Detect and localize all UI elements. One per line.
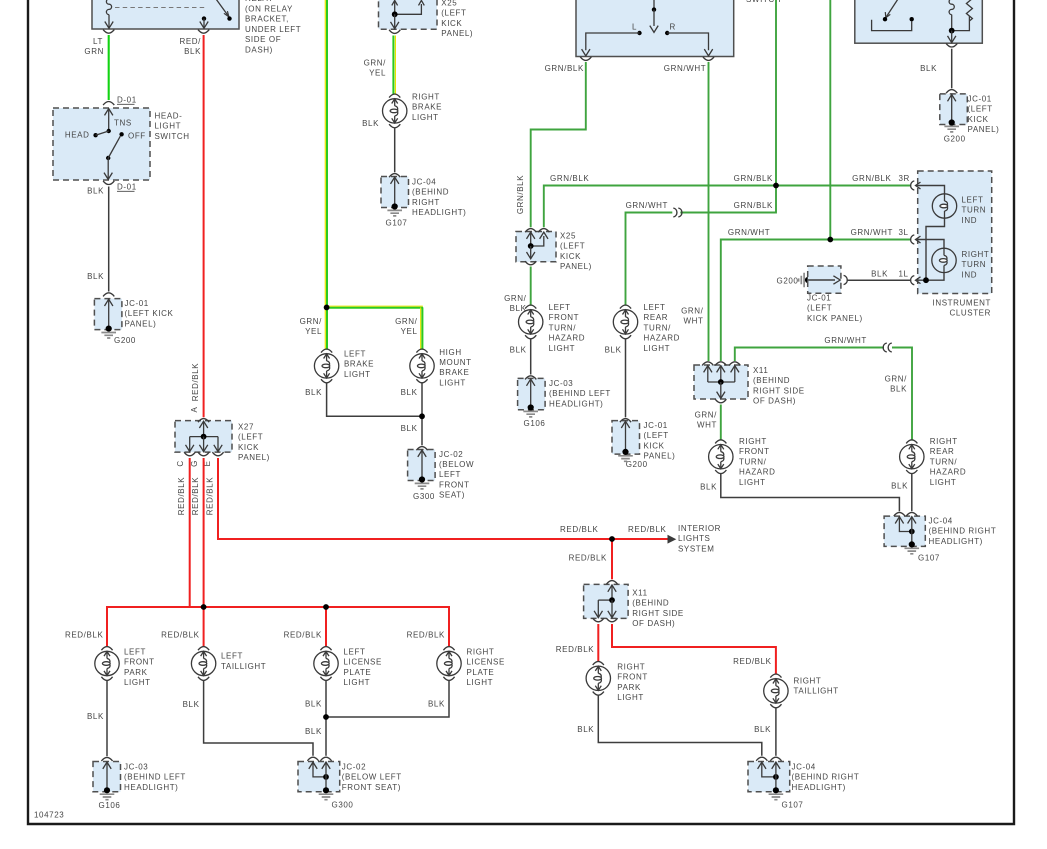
lamp RIGHT TAILLIGHT: [764, 674, 788, 708]
svg-text:UNDER LEFT: UNDER LEFT: [245, 25, 301, 34]
svg-text:LEFT: LEFT: [962, 196, 984, 205]
svg-text:TNS: TNS: [114, 119, 132, 128]
svg-text:PLATE: PLATE: [467, 668, 495, 677]
connector X25 left kick panel top: [379, 0, 438, 33]
svg-text:OFF: OFF: [128, 132, 146, 141]
svg-text:PANEL): PANEL): [441, 29, 473, 38]
wire GRN/YEL main trunk from top: [325, 0, 327, 307]
svg-text:BLK: BLK: [183, 700, 200, 709]
svg-text:GRN: GRN: [84, 47, 104, 56]
svg-text:FRONT: FRONT: [549, 313, 580, 322]
svg-text:SYSTEM: SYSTEM: [678, 544, 715, 553]
svg-text:HEADLIGHT): HEADLIGHT): [124, 783, 178, 792]
svg-text:OF DASH): OF DASH): [632, 619, 675, 628]
cluster connector 3L: [911, 235, 921, 244]
svg-text:KICK: KICK: [441, 19, 462, 28]
svg-text:BRAKE: BRAKE: [344, 360, 374, 369]
wire GRN/YEL drop to left brake light: [300, 307, 327, 349]
svg-text:BRACKET,: BRACKET,: [245, 15, 289, 24]
label JC-01 (LEFT KICK PANEL) horizontal: [807, 294, 863, 323]
svg-text:KICK PANEL): KICK PANEL): [807, 314, 863, 323]
flasher output junction and exit: [946, 28, 957, 47]
svg-text:KICK: KICK: [238, 443, 259, 452]
label LEFT FRONT TURN/HAZARD LIGHT: [549, 303, 586, 353]
svg-text:OF DASH): OF DASH): [753, 397, 796, 406]
junction dot brake light branch: [324, 305, 330, 311]
cluster internal wiring: [916, 186, 945, 284]
wire GRN/WHT X11 to right front turn light: [695, 405, 721, 441]
svg-text:TAILLIGHT: TAILLIGHT: [221, 662, 266, 671]
svg-text:LEFT: LEFT: [124, 648, 146, 657]
wire RED/BLK X27 pin E to interior lights junction: [218, 458, 612, 539]
label LEFT FRONT PARK LIGHT: [124, 648, 155, 688]
lamp RIGHT BRAKE LIGHT: [383, 94, 407, 128]
wire LT GRN relay to headlight switch: [108, 35, 110, 100]
wire BLK right taillight to JC-04: [754, 708, 776, 756]
label LEFT LICENSE PLATE LIGHT: [344, 648, 382, 688]
svg-text:GRN/BLK: GRN/BLK: [545, 64, 584, 73]
relay pin exit arcs: [103, 30, 209, 34]
svg-text:TURN: TURN: [962, 260, 987, 269]
lamp RIGHT FRONT TURN/HAZARD LIGHT: [709, 440, 733, 474]
svg-text:(ON RELAY: (ON RELAY: [245, 5, 293, 14]
wire GRN/BLK switch to X25: [516, 62, 586, 227]
svg-text:LIGHT: LIGHT: [617, 693, 644, 702]
svg-text:HEADLIGHT): HEADLIGHT): [412, 208, 466, 217]
svg-text:JC-01: JC-01: [125, 299, 149, 308]
svg-text:BLK: BLK: [890, 385, 907, 394]
junction connector JC-03 behind left headlight with ground G106 bottom: [93, 757, 121, 810]
wire BLK right front turn to JC-04: [700, 473, 899, 511]
svg-text:(BELOW LEFT: (BELOW LEFT: [342, 773, 402, 782]
svg-text:3R: 3R: [899, 174, 910, 183]
svg-text:LIGHT: LIGHT: [739, 478, 766, 487]
label RIGHT REAR TURN/HAZARD LIGHT: [930, 437, 967, 487]
svg-text:GRN/WHT: GRN/WHT: [851, 228, 893, 237]
svg-text:GRN/WHT: GRN/WHT: [664, 64, 706, 73]
label JC-01 (LEFT KICK PANEL): [125, 299, 174, 328]
wire BLK right license plate light to junction: [326, 680, 449, 717]
svg-text:GRN/: GRN/: [300, 317, 323, 326]
wire RED/BLK X27 pin G to left taillight: [203, 458, 205, 647]
connector D-01 bottom of headlight switch: [87, 181, 137, 196]
turn signal switch internals L R: [582, 0, 713, 56]
svg-text:C: C: [176, 460, 185, 466]
svg-text:IND: IND: [962, 270, 978, 279]
svg-text:G200: G200: [626, 460, 648, 469]
svg-text:RIGHT: RIGHT: [617, 663, 645, 672]
svg-text:BLK: BLK: [305, 700, 322, 709]
svg-text:RIGHT: RIGHT: [962, 250, 990, 259]
svg-text:BLK: BLK: [577, 725, 594, 734]
svg-text:L: L: [632, 23, 637, 32]
svg-text:JC-04: JC-04: [412, 178, 436, 187]
svg-text:GRN/WHT: GRN/WHT: [824, 336, 866, 345]
lamp RIGHT FRONT PARK LIGHT: [586, 661, 610, 695]
connector X27 left kick panel: [175, 419, 232, 456]
wire RED/BLK X27 pin C to park lights bus: [189, 458, 191, 607]
svg-text:JC-01: JC-01: [968, 95, 992, 104]
svg-text:LEFT: LEFT: [344, 648, 366, 657]
diagram number 104723: [34, 811, 64, 820]
svg-text:YEL: YEL: [305, 327, 322, 336]
svg-text:(LEFT: (LEFT: [238, 433, 263, 442]
svg-text:(LEFT: (LEFT: [807, 304, 832, 313]
connector X11 behind right side of dash upper: [694, 362, 748, 403]
svg-text:HEAD-: HEAD-: [155, 112, 183, 121]
svg-text:(BELOW: (BELOW: [439, 460, 474, 469]
svg-text:(LEFT: (LEFT: [560, 242, 585, 251]
svg-text:DASH): DASH): [245, 45, 273, 54]
wire GRN/WHT line C to instrument cluster 3L: [830, 228, 911, 240]
svg-text:PANEL): PANEL): [560, 262, 592, 271]
relay K1 TNS relay box (on relay bracket): [92, 0, 239, 29]
svg-text:SIDE OF: SIDE OF: [245, 35, 281, 44]
svg-text:(BEHIND: (BEHIND: [632, 599, 669, 608]
label X25 (LEFT KICK PANEL) mid: [560, 232, 592, 272]
svg-text:WHT: WHT: [683, 317, 703, 326]
junction connector JC-03 behind left headlight with ground G106: [518, 376, 546, 428]
svg-text:G300: G300: [332, 801, 354, 810]
svg-text:RED/BLK: RED/BLK: [560, 525, 598, 534]
svg-text:BLK: BLK: [362, 119, 379, 128]
svg-text:KICK: KICK: [968, 115, 989, 124]
svg-text:BLK: BLK: [305, 388, 322, 397]
wire BLK left front turn to JC-03: [510, 339, 531, 375]
svg-text:X27: X27: [238, 423, 254, 432]
svg-text:BLK: BLK: [754, 725, 771, 734]
svg-text:GRN/: GRN/: [395, 317, 418, 326]
wire BLK left front park light to JC-03: [87, 680, 107, 756]
svg-text:BRAKE: BRAKE: [412, 103, 442, 112]
svg-text:BLK: BLK: [401, 424, 418, 433]
label RED/BLK: [179, 37, 201, 56]
svg-text:HAZARD: HAZARD: [644, 334, 681, 343]
svg-text:(BEHIND RIGHT: (BEHIND RIGHT: [929, 527, 997, 536]
label JC-01 (LEFT KICK PANEL) mid: [644, 421, 676, 461]
svg-text:LT: LT: [93, 37, 103, 46]
svg-text:CLUSTER: CLUSTER: [949, 309, 991, 318]
label RIGHT TAILLIGHT: [794, 677, 839, 696]
svg-text:YEL: YEL: [401, 327, 418, 336]
svg-text:INTERIOR: INTERIOR: [678, 524, 721, 533]
turn signal switch box: [576, 0, 734, 57]
svg-text:BLK: BLK: [305, 727, 322, 736]
flasher switch contacts: [872, 0, 914, 31]
svg-text:PLATE: PLATE: [344, 668, 372, 677]
svg-text:IND: IND: [962, 216, 978, 225]
svg-text:PANEL): PANEL): [968, 125, 1000, 134]
wire RED/BLK to interior lights system arrow: [612, 525, 676, 544]
lamp RIGHT TURN IND: [932, 248, 956, 272]
svg-text:G200: G200: [944, 135, 966, 144]
svg-text:GRN/BLK: GRN/BLK: [734, 201, 773, 210]
svg-text:RED/: RED/: [179, 37, 201, 46]
svg-text:RIGHT: RIGHT: [930, 437, 958, 446]
svg-text:GRN/WHT: GRN/WHT: [626, 201, 668, 210]
svg-text:BLK: BLK: [510, 346, 527, 355]
inline connector break line D: [883, 343, 892, 352]
label RIGHT BRAKE LIGHT: [412, 93, 442, 122]
svg-text:LEFT: LEFT: [439, 470, 461, 479]
svg-text:RED/BLK: RED/BLK: [161, 630, 199, 639]
labels RED/BLK above lamp row: [65, 630, 445, 639]
svg-text:X25: X25: [560, 232, 576, 241]
svg-text:BLK: BLK: [700, 483, 717, 492]
turn signal switch exit arcs: [545, 57, 715, 73]
junction connector JC-02 below left front seat with ground G300 bottom: [298, 757, 353, 809]
svg-text:G106: G106: [99, 801, 121, 810]
label HIGH MOUNT BRAKE LIGHT: [439, 348, 471, 388]
wire GRN/BLK break to right rear turn light: [885, 348, 912, 441]
label JC-04 (BEHIND RIGHT HEADLIGHT) upper: [929, 517, 997, 546]
cluster connector 1L: [911, 276, 921, 285]
svg-text:104723: 104723: [34, 811, 64, 820]
label RIGHT FRONT TURN/HAZARD LIGHT: [739, 437, 776, 487]
junction connector JC-04 behind right headlight with ground G107 bottom: [748, 757, 803, 809]
label RIGHT TURN IND: [962, 250, 990, 279]
svg-text:LEFT: LEFT: [549, 303, 571, 312]
junction dot brake lights BLK: [419, 413, 425, 419]
svg-text:LICENSE: LICENSE: [467, 658, 505, 667]
wire BLK left rear turn to JC-01: [605, 339, 626, 418]
relay coil: [105, 0, 113, 28]
svg-text:HEAD: HEAD: [65, 131, 90, 140]
svg-text:G300: G300: [413, 492, 435, 501]
lamp LEFT BRAKE LIGHT: [314, 349, 338, 383]
wire BLK headlight switch to JC-01: [87, 187, 109, 292]
flasher relay box top right: [855, 0, 983, 43]
svg-text:RIGHT: RIGHT: [739, 437, 767, 446]
wire BLK JC-01 to cluster 1L: [847, 270, 912, 281]
svg-text:GRN/WHT: GRN/WHT: [728, 228, 770, 237]
label INTERIOR LIGHTS SYSTEM: [678, 524, 721, 553]
svg-text:PARK: PARK: [617, 683, 641, 692]
svg-text:REAR: REAR: [930, 447, 955, 456]
wire RED/BLK junction down to X11: [569, 541, 612, 579]
svg-text:JC-02: JC-02: [342, 762, 366, 771]
svg-text:(LEFT: (LEFT: [644, 431, 669, 440]
svg-text:G106: G106: [524, 419, 546, 428]
label RIGHT FRONT PARK LIGHT: [617, 663, 648, 703]
svg-text:LIGHT: LIGHT: [439, 378, 466, 387]
svg-text:RIGHT: RIGHT: [412, 93, 440, 102]
svg-text:LIGHT: LIGHT: [644, 344, 671, 353]
svg-text:BLK: BLK: [891, 482, 908, 491]
svg-text:RED/BLK: RED/BLK: [284, 630, 322, 639]
lamp LEFT TURN IND: [932, 194, 956, 218]
svg-text:LEFT: LEFT: [221, 652, 243, 661]
wire RED/BLK X11 to right front park light: [556, 624, 599, 662]
wire BLK high mount to JC-02: [401, 383, 422, 446]
svg-text:GRN/BLK: GRN/BLK: [734, 174, 773, 183]
junction connector JC-04 behind right headlight mid with ground G107: [381, 174, 409, 228]
junction connector JC-01 left kick panel right with ground G200: [940, 90, 968, 144]
svg-text:BRAKE: BRAKE: [439, 368, 469, 377]
svg-text:JC-04: JC-04: [929, 517, 953, 526]
svg-text:LIGHT: LIGHT: [930, 478, 957, 487]
svg-text:FRONT: FRONT: [439, 480, 470, 489]
wire RED/BLK park-taillight bus: [107, 607, 449, 647]
svg-text:RIGHT SIDE: RIGHT SIDE: [753, 386, 805, 395]
svg-text:HIGH: HIGH: [439, 348, 461, 357]
cluster connector 3R: [911, 181, 921, 190]
svg-text:JC-04: JC-04: [792, 762, 816, 771]
svg-text:GRN/: GRN/: [504, 294, 527, 303]
labels RED/BLK below X27: [177, 477, 214, 515]
svg-text:LEFT: LEFT: [644, 303, 666, 312]
lamp LEFT TAILLIGHT: [191, 647, 215, 681]
junction dots on bus: [201, 604, 329, 610]
wire GRN/YEL drop to high mount brake light: [395, 307, 422, 349]
svg-text:GRN/: GRN/: [695, 411, 718, 420]
junction connector JC-02 below left front seat mid with ground G300: [408, 447, 436, 501]
svg-text:RED/BLK: RED/BLK: [65, 630, 103, 639]
svg-text:RED/BLK: RED/BLK: [191, 477, 200, 515]
svg-text:X11: X11: [753, 366, 768, 375]
svg-text:HAZARD: HAZARD: [549, 334, 586, 343]
svg-text:GRN/: GRN/: [364, 59, 387, 68]
svg-text:LIGHT: LIGHT: [124, 678, 151, 687]
label JC-04 (BEHIND RIGHT HEADLIGHT) mid: [412, 178, 466, 218]
label LEFT BRAKE LIGHT: [344, 350, 374, 379]
svg-text:TURN/: TURN/: [644, 323, 672, 332]
svg-text:PANEL): PANEL): [644, 452, 676, 461]
svg-text:G107: G107: [386, 219, 408, 228]
label LEFT TURN IND: [962, 196, 987, 225]
lamp LEFT FRONT PARK LIGHT: [95, 647, 119, 681]
svg-text:JC-01: JC-01: [644, 421, 668, 430]
svg-text:PANEL): PANEL): [238, 453, 270, 462]
lamp HIGH MOUNT BRAKE LIGHT: [410, 349, 434, 383]
wire BLK right front park light to JC-04: [577, 695, 762, 756]
wire GRN/WHT switch to X11: [681, 62, 708, 361]
svg-text:LICENSE: LICENSE: [344, 658, 382, 667]
wire BLK left brake light to junction: [305, 383, 422, 417]
svg-text:D-01: D-01: [117, 96, 137, 105]
wire RED/BLK relay to X27: [190, 35, 204, 417]
svg-text:YEL: YEL: [369, 69, 386, 78]
wire BLK right brake light to JC-04: [362, 119, 395, 172]
junction connector JC-01 left kick panel mid with ground G200: [612, 419, 648, 469]
junction connector JC-01 left kick panel horizontal with ground G200: [777, 266, 848, 293]
inline connector break line B: [673, 208, 682, 217]
svg-text:RIGHT: RIGHT: [794, 677, 822, 686]
wire GRN/BLK line A junction to break: [680, 186, 776, 213]
svg-text:INSTRUMENT: INSTRUMENT: [933, 299, 991, 308]
wire GRN/BLK horizontal line to instrument cluster 3R: [544, 174, 912, 227]
svg-text:D-01: D-01: [117, 183, 137, 192]
wire BLK flasher to JC-01: [920, 49, 952, 89]
lamp LEFT LICENSE PLATE LIGHT: [314, 647, 338, 681]
wire BLK left license plate light down: [305, 680, 326, 756]
svg-text:RIGHT: RIGHT: [467, 648, 495, 657]
label JC-03 (BEHIND LEFT HEADLIGHT): [549, 379, 611, 408]
svg-text:TURN/: TURN/: [930, 457, 958, 466]
lamp RIGHT LICENSE PLATE LIGHT: [437, 647, 461, 681]
connector D-01 top of headlight switch: [103, 96, 137, 106]
svg-text:HEADLIGHT): HEADLIGHT): [792, 783, 846, 792]
svg-text:HEADLIGHT): HEADLIGHT): [549, 399, 603, 408]
lamp LEFT REAR TURN/HAZARD LIGHT: [613, 305, 637, 339]
svg-text:(LEFT: (LEFT: [441, 9, 466, 18]
label SWITCH fragment: [746, 0, 781, 4]
junction dot license lights BLK: [323, 714, 329, 720]
svg-text:RIGHT SIDE: RIGHT SIDE: [632, 609, 684, 618]
connector X25 left kick panel mid: [516, 229, 556, 265]
wire GRN/WHT break to left rear turn light: [626, 201, 673, 306]
svg-text:G200: G200: [114, 336, 136, 345]
svg-text:LIGHT: LIGHT: [344, 678, 371, 687]
svg-text:X11: X11: [632, 589, 647, 598]
svg-text:BLK: BLK: [920, 64, 937, 73]
svg-text:TAILLIGHT: TAILLIGHT: [794, 687, 839, 696]
svg-text:GRN/BLK: GRN/BLK: [550, 174, 589, 183]
svg-text:G: G: [190, 460, 199, 467]
svg-text:JC-03: JC-03: [124, 762, 148, 771]
svg-text:FRONT SEAT): FRONT SEAT): [342, 783, 401, 792]
svg-text:RELAY: RELAY: [245, 0, 274, 3]
junction connector JC-04 behind right headlight upper with ground G107: [884, 512, 940, 562]
lamp RIGHT REAR TURN/HAZARD LIGHT: [900, 440, 924, 474]
svg-text:(LEFT KICK: (LEFT KICK: [125, 309, 174, 318]
wire GRN vertical from top to line C junction: [829, 0, 831, 240]
junction dot line C: [827, 237, 833, 243]
junction dot line A: [773, 183, 779, 189]
svg-text:BLK: BLK: [401, 388, 418, 397]
label LEFT TAILLIGHT: [221, 652, 266, 671]
svg-text:RED/BLK: RED/BLK: [407, 630, 445, 639]
svg-text:GRN/BLK: GRN/BLK: [852, 174, 891, 183]
svg-text:X25: X25: [441, 0, 457, 8]
svg-text:R: R: [670, 23, 676, 32]
svg-text:BLK: BLK: [871, 270, 888, 279]
junction connector JC-01 left kick panel with ground G200: [94, 293, 136, 345]
svg-text:RED/BLK: RED/BLK: [191, 363, 200, 401]
label X11 (BEHIND RIGHT SIDE OF DASH) upper: [753, 366, 805, 406]
svg-text:A: A: [190, 406, 199, 412]
svg-text:WHT: WHT: [697, 421, 717, 430]
svg-text:MOUNT: MOUNT: [439, 358, 471, 367]
svg-text:PANEL): PANEL): [125, 319, 157, 328]
svg-text:LIGHTS: LIGHTS: [678, 534, 711, 543]
relay actuation dashed line: [115, 7, 206, 9]
svg-text:LIGHT: LIGHT: [155, 122, 182, 131]
svg-text:FRONT: FRONT: [124, 658, 155, 667]
wire GRN/YEL X25 to right brake light: [364, 36, 396, 95]
svg-text:LIGHT: LIGHT: [549, 344, 576, 353]
svg-text:G107: G107: [782, 801, 804, 810]
svg-text:BLK: BLK: [87, 712, 104, 721]
svg-text:RED/BLK: RED/BLK: [628, 525, 666, 534]
lamp LEFT FRONT TURN/HAZARD LIGHT: [519, 305, 543, 339]
svg-text:PARK: PARK: [124, 668, 148, 677]
wire GRN/BLK X25 to left front turn light: [504, 267, 531, 314]
flasher coil: [949, 0, 954, 31]
svg-text:SWITCH: SWITCH: [155, 132, 190, 141]
instrument cluster box: [918, 171, 992, 294]
label LT GRN: [84, 37, 104, 56]
svg-text:RED/BLK: RED/BLK: [206, 477, 215, 515]
flasher resistor: [952, 0, 973, 31]
svg-text:LIGHT: LIGHT: [412, 113, 439, 122]
svg-text:BLK: BLK: [428, 700, 445, 709]
svg-text:REAR: REAR: [644, 313, 669, 322]
svg-text:LEFT: LEFT: [344, 350, 366, 359]
label JC-04 (BEHIND RIGHT HEADLIGHT) bottom: [792, 762, 860, 791]
svg-text:LIGHT: LIGHT: [344, 370, 371, 379]
svg-text:GRN/BLK: GRN/BLK: [516, 175, 525, 214]
